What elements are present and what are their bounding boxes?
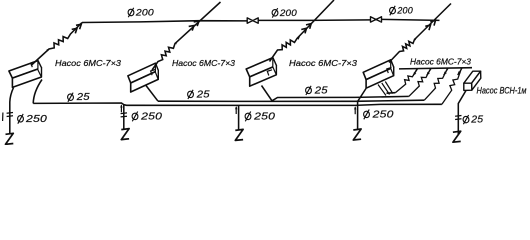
svg-text:Насос 6МС-7×3: Насос 6МС-7×3 [55,58,121,68]
svg-text:Насос 6МС-7×3: Насос 6МС-7×3 [289,58,357,68]
svg-text:25: 25 [470,115,483,126]
svg-text:Насос 6МС-7×3: Насос 6МС-7×3 [410,57,471,67]
svg-text:250: 250 [25,114,47,125]
svg-text:25: 25 [314,85,328,96]
svg-text:200: 200 [135,8,155,19]
svg-text:Насос 6МС-7×3: Насос 6МС-7×3 [172,58,235,68]
svg-text:Насос ВСН-1м: Насос ВСН-1м [477,86,528,96]
svg-text:25: 25 [76,92,90,103]
svg-text:200: 200 [396,6,413,17]
svg-text:250: 250 [140,111,162,122]
svg-text:250: 250 [371,109,393,120]
svg-text:25: 25 [196,89,210,100]
svg-text:250: 250 [253,111,275,122]
svg-text:200: 200 [279,8,297,19]
